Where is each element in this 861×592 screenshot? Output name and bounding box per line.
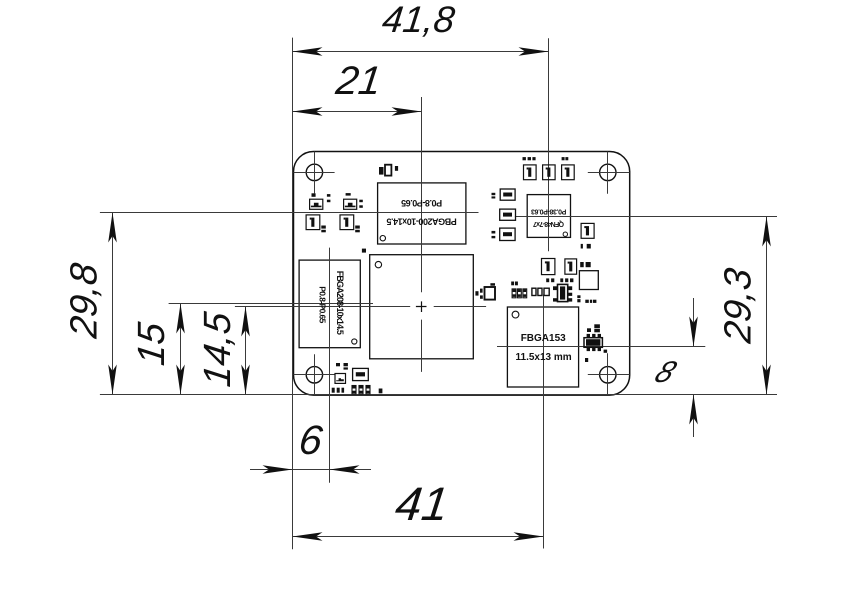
marks LED top: [492, 193, 496, 195]
pin1 U2: [352, 339, 357, 344]
svg-text:29,8: 29,8: [63, 261, 106, 341]
centerline V2a (21): [421, 97, 423, 292]
svg-text:P0.8-P0.65: P0.8-P0.65: [401, 198, 442, 208]
mark right sot363: [604, 350, 608, 353]
extension line H3 (15): [169, 303, 373, 305]
marks R2: [359, 200, 363, 203]
component G2: [565, 259, 577, 274]
dimension 8 line bottom: [693, 395, 695, 438]
via dot TL crosshair: [312, 193, 316, 197]
centerline H4b: [434, 306, 486, 308]
dimension 41,8 line: [293, 51, 549, 53]
pin1 U1: [380, 236, 385, 241]
component D1: [524, 165, 537, 180]
svg-text:P0.38-P0.63: P0.38-P0.63: [531, 207, 567, 214]
marks above sot363: [587, 328, 591, 332]
marks R1: [327, 194, 331, 197]
svg-text:15: 15: [130, 319, 173, 367]
crosshair BR vertical: [607, 353, 609, 395]
LED box top: [500, 189, 515, 200]
component F1 below qfn: [581, 223, 594, 238]
component C2: [340, 215, 354, 230]
component D3: [562, 165, 575, 180]
crosshair TR vertical: [607, 152, 609, 194]
sot23-5 body: [558, 284, 568, 301]
chip U4 QFN48 right: [527, 195, 570, 238]
picture comp: [335, 374, 346, 384]
component L2: [344, 199, 357, 209]
mounting hole top-left: [306, 164, 322, 180]
extension line V1 left: [292, 38, 294, 550]
chip U3 big square center: [370, 255, 474, 359]
extension line H6 bottom: [100, 394, 777, 396]
chip U1 PBGA200 top: [378, 183, 466, 244]
component C1: [306, 215, 320, 230]
dots row above sot: [546, 278, 549, 282]
mounting hole bottom-right: [600, 367, 616, 383]
svg-text:PBGA200-10x14.5: PBGA200-10x14.5: [386, 217, 456, 227]
aart box: [500, 209, 516, 220]
sot363 right of fbga153: [584, 338, 602, 348]
centerline H1 top chip: [100, 212, 479, 214]
crosshair BR horizontal: [588, 374, 630, 376]
dimension 41 line: [293, 536, 544, 538]
east box: [500, 228, 515, 240]
svg-text:P0.8-P0.65: P0.8-P0.65: [318, 286, 328, 323]
pin1 U4: [563, 232, 567, 236]
empty pad square: [579, 271, 598, 290]
tiny mark s: [379, 389, 383, 394]
dots top-right group: [523, 157, 526, 160]
svg-text:14,5: 14,5: [196, 309, 239, 389]
crosshair BL vertical: [314, 354, 316, 395]
sot pins: [553, 286, 558, 290]
svg-text:29,3: 29,3: [717, 266, 760, 346]
board outline: [294, 152, 630, 396]
striped part S2: [518, 289, 522, 298]
svg-text:41: 41: [393, 477, 452, 530]
mark below sot363: [585, 358, 588, 362]
chip U2 FBGA208 left: [299, 260, 360, 348]
dots row bottom-left: [332, 388, 335, 393]
dimension 21 line: [293, 111, 422, 113]
mark above L2: [346, 193, 351, 196]
centerline V2b: [421, 320, 423, 372]
centerline H2 right chip: [515, 216, 777, 218]
crosshair TL horizontal: [294, 172, 335, 174]
centerline H5 FBGA153: [497, 346, 705, 348]
pin1 U5: [512, 311, 519, 318]
tiny part E3: [395, 166, 398, 171]
svg-text:FBGA208-10x14.5: FBGA208-10x14.5: [335, 271, 345, 335]
dimension 6 line: [250, 469, 371, 471]
dimension 29,8 line: [112, 213, 114, 395]
extension line V4 (41): [543, 295, 545, 549]
Lass box bottom-left: [353, 368, 369, 380]
pin1 U3: [375, 261, 381, 267]
dots pair left: [511, 282, 514, 286]
dimension 15 line: [180, 304, 182, 395]
component L1: [310, 199, 323, 209]
striped part S3: [523, 289, 527, 298]
tiny part E2: [385, 165, 391, 176]
tiny pair below F1: [581, 244, 583, 249]
dimension 14,5 line: [245, 307, 247, 395]
extension line V3 (41,8): [548, 38, 550, 251]
crosshair TL vertical: [314, 152, 316, 194]
cluster right of big square: [485, 287, 496, 300]
squares T1 T2 T3: [532, 288, 536, 295]
dimension 29,3 line: [766, 217, 768, 395]
crosshair BL horizontal: [294, 374, 335, 376]
chip U5 FBGA153: [507, 307, 578, 387]
centerline V5 (6): [329, 248, 331, 483]
dimension 8 line top: [693, 298, 695, 347]
center cross U3: [416, 301, 427, 312]
svg-text:FBGA153: FBGA153: [521, 333, 566, 344]
striped parts bottom: [352, 386, 356, 395]
svg-text:21: 21: [333, 58, 384, 103]
extension line H4a (14,5): [235, 306, 410, 308]
tiny part E4: [362, 249, 366, 253]
marks below sot: [577, 295, 580, 298]
svg-text:41,8: 41,8: [380, 0, 457, 40]
component D2: [543, 165, 556, 180]
marks east: [492, 231, 496, 234]
marks C2: [355, 226, 360, 229]
component G1: [542, 259, 555, 275]
mounting hole top-right: [600, 164, 616, 180]
marks above picture comp: [336, 363, 340, 366]
dots right of G2: [580, 262, 584, 267]
svg-text:8: 8: [650, 354, 683, 388]
svg-text:11.5x13 mm: 11.5x13 mm: [516, 352, 572, 363]
mounting hole bottom-left: [306, 367, 322, 383]
tiny part E1: [379, 167, 384, 175]
marks C1: [321, 226, 326, 229]
svg-text:6: 6: [296, 417, 325, 463]
svg-text:QFN48-7x7: QFN48-7x7: [533, 220, 564, 227]
striped part S1: [512, 289, 516, 298]
crosshair TR horizontal: [588, 172, 630, 174]
